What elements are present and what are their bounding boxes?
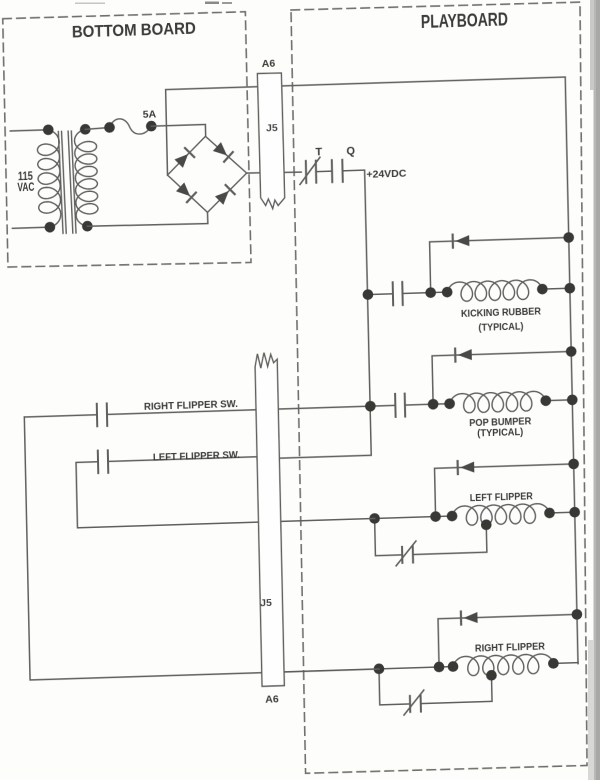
wire: coil right end to rail bottom [553,662,578,665]
svg-text:J5: J5 [260,597,272,609]
transformer T1 secondary winding [74,129,98,227]
bridge diode CR4 [215,191,229,205]
junction: rail at kicking rubber diode [563,232,574,243]
coil L3 left flipper [452,503,550,525]
svg-text:T: T [315,146,322,158]
junction: kicking rubber diode branch [425,287,436,298]
wire: T to Q [316,170,332,173]
diode CR5 [455,235,469,246]
relay contact Q [332,160,343,182]
wire: secondary bottom to bridge AC bottom corner [87,212,208,227]
terminal: kicking rubber coil right [537,284,548,295]
svg-text:J5: J5 [266,122,278,134]
wire: secondary top to fuse [85,127,109,129]
diode CR6 [458,349,472,360]
diode branch: right flipper [438,614,578,667]
bridge diode CR1 [174,154,188,168]
coil L2 pop bumper [449,391,546,413]
terminal: pop bumper coil right [540,395,551,406]
svg-text:BOTTOM BOARD: BOTTOM BOARD [72,18,196,41]
terminal: right flipper coil right [548,658,559,669]
junction: rail at left flipper coil [569,507,580,518]
wire: coil to rail [542,287,569,290]
terminal dot: primary top [43,124,54,135]
svg-text:(TYPICAL): (TYPICAL) [477,427,523,439]
fuse F1 5A squiggle [109,118,151,135]
coil L4 right flipper [453,654,554,677]
transformer T1 core [58,131,76,233]
EOS switch (left flipper, normally closed) [402,547,413,563]
svg-text:Q: Q [346,145,355,157]
terminal: kicking rubber coil left [442,287,453,298]
diode branch: kicking rubber [430,237,570,292]
wire: left tall return + bottom run to right flipper [24,406,379,680]
diode branch: pop bumper [432,351,572,404]
coil L1 kicking rubber [447,279,543,301]
junction: rail at kicking rubber coil [564,283,575,294]
svg-text:5A: 5A [143,108,157,120]
junction: rail at pop bumper diode [566,346,577,357]
switch contact (kicking rubber) [393,282,403,305]
wire: Q to +24VDC corner, down to bumper rows, over to connector [251,170,371,459]
wire: left flipper switch stub + return run [76,453,375,528]
EOS switch (right flipper, normally closed) [410,696,421,712]
terminal: right flipper coil tap [486,670,497,681]
svg-text:(TYPICAL): (TYPICAL) [478,321,523,333]
svg-text:A6: A6 [265,693,279,705]
junction: rail at pop bumper coil [567,394,578,405]
transformer T1 primary winding [37,129,61,227]
diode branch: left flipper [435,464,575,517]
terminal dot: secondary bottom [82,221,93,232]
relay contact T (normally closed) [306,161,316,183]
wire: 115VAC primary top lead [10,130,48,131]
bridge diode CR3 [176,182,190,196]
junction: +24VDC bus at pop bumper row [365,401,376,412]
svg-text:LEFT FLIPPER: LEFT FLIPPER [470,491,534,504]
svg-text:+24VDC: +24VDC [366,168,407,181]
playboard dashed border [289,1,597,774]
svg-text:PLAYBOARD: PLAYBOARD [421,9,508,32]
wire: bridge DC+ to T contact [247,171,302,174]
bridge rectifier diamond [167,135,248,213]
terminal dot: secondary top [80,124,91,135]
connector J5/A6 upper [257,73,285,209]
switch: RIGHT FLIPPER SW. [97,403,107,426]
bridge diode CR2 [213,142,227,156]
terminal dot: primary bottom [44,222,55,233]
diode CR7 [460,462,474,473]
svg-text:A6: A6 [262,58,276,70]
wire: fuse to bridge AC top corner [151,124,205,138]
terminal: left flipper coil tap [481,519,492,530]
wire: right flipper feed [262,667,453,673]
bottom board dashed border [3,11,251,270]
diode CR8 [463,612,477,623]
wire: pop bumper row from connector [256,405,395,409]
junction: right flipper feed / EOS branch [374,663,385,674]
wire: coil to rail [550,511,575,514]
junction: rail at right flipper diode [572,609,583,620]
EOS switch branch: left flipper [375,518,403,556]
junction: +24VDC bus at kicking rubber row [363,289,374,300]
terminal: left flipper coil left [447,511,458,522]
terminal: right flipper coil left [448,661,459,672]
fuse terminal dot left [104,122,115,133]
connector J5/A6 lower [255,352,285,686]
wire: bridge DC- up, across top, down right rail [166,77,578,676]
wire: left flipper feed from connector [258,516,452,522]
svg-text:VAC: VAC [17,182,34,195]
wire: switch to coil [403,292,448,293]
EOS switch branch: right flipper [379,668,410,705]
wire: kicking rubber row [368,293,393,296]
svg-text:RIGHT FLIPPER: RIGHT FLIPPER [475,641,546,654]
junction: right flipper diode branch [434,661,445,672]
wire: switch to coil [405,404,450,405]
switch: LEFT FLIPPER SW. [98,450,108,473]
terminal: pop bumper coil left [444,398,455,409]
fuse terminal dot right [146,121,157,132]
wire: 115VAC primary bottom lead [12,227,49,228]
wire: coil to rail [546,399,572,402]
scan artifact: right edge gray band [594,0,600,780]
junction: pop bumper diode branch [428,399,439,410]
terminal: left flipper coil right [544,508,555,519]
scan artifact: top edge marks [205,2,219,5]
wire: right flipper switch row [24,415,97,417]
junction: left flipper diode branch [430,511,441,522]
junction: left flipper feed / EOS branch [369,513,380,524]
switch contact (pop bumper) [395,394,405,417]
junction: rail at left flipper diode [568,458,579,469]
